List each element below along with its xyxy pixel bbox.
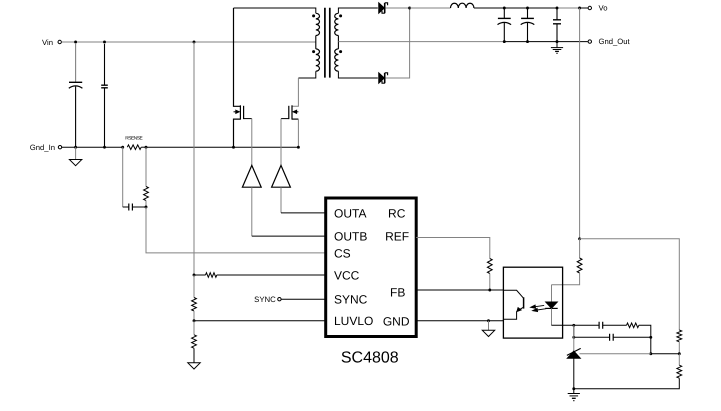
wire ground rail right xyxy=(146,146,298,148)
node comp branch junction xyxy=(572,336,575,339)
node comp net junction xyxy=(649,336,652,339)
terminal Vo xyxy=(588,4,607,13)
node Vin-VCC tap junction xyxy=(193,41,196,44)
wire opto light arrows xyxy=(530,304,546,312)
svg-text:Vo: Vo xyxy=(599,4,608,13)
ground UVLO (triangle) xyxy=(188,363,200,369)
node C5 top junction xyxy=(526,7,529,10)
svg-text:RSENSE: RSENSE xyxy=(125,136,143,142)
node RSENSE left junction xyxy=(121,146,124,149)
terminal Vin xyxy=(42,38,61,47)
wire CS filter right leg xyxy=(145,147,147,186)
node Vin-C2 junction xyxy=(103,41,106,44)
node Q1 source junction xyxy=(232,146,235,149)
node C4 bottom junction xyxy=(503,40,506,43)
wire inductor to output caps xyxy=(474,7,557,9)
resistor R4 (UVLO bottom) xyxy=(192,321,197,363)
svg-text:VCC: VCC xyxy=(334,268,360,282)
wire primary bottom lead xyxy=(298,71,315,78)
svg-text:FB: FB xyxy=(390,285,405,299)
svg-text:Gnd_Out: Gnd_Out xyxy=(599,37,631,46)
node FB junction xyxy=(488,289,491,292)
wire Q2 gate xyxy=(281,118,289,120)
transformer T1 core xyxy=(325,8,330,78)
svg-text:REF: REF xyxy=(385,229,409,243)
node TL431 anode junction xyxy=(572,387,575,390)
node Vo junction xyxy=(578,7,581,10)
wire SYNC to IC xyxy=(281,298,325,300)
svg-text:Vin: Vin xyxy=(42,38,53,47)
wire Vin to VCC divider xyxy=(193,42,195,275)
capacitor C5 (output electrolytic) xyxy=(521,8,535,42)
wire FB pin xyxy=(416,289,503,291)
node RSENSE right junction xyxy=(145,146,148,149)
transformer T1 secondary winding xyxy=(335,13,339,35)
svg-text:RC: RC xyxy=(388,207,406,221)
terminal SYNC xyxy=(254,295,281,304)
ground input (triangle) xyxy=(69,147,81,166)
wire CS to IC xyxy=(146,207,326,253)
node Vin-C1 junction xyxy=(74,41,77,44)
op-amp U2 optocoupler box xyxy=(503,267,562,338)
wire GND pin xyxy=(416,319,503,320)
capacitor C7 (comp series) xyxy=(599,322,626,329)
transistor Q3 (opto phototransistor) xyxy=(503,290,523,319)
wire secondary top lead xyxy=(338,8,377,13)
node VCC junction xyxy=(193,274,196,277)
node C1 ground junction xyxy=(74,146,77,149)
wire rectified to inductor xyxy=(410,7,451,9)
capacitor C8 (comp parallel) xyxy=(610,334,651,341)
terminal Gnd_In xyxy=(30,143,62,152)
node secondary phase dots xyxy=(339,14,342,17)
ground IC (triangle) xyxy=(482,321,494,337)
node Q2 source junction xyxy=(297,146,300,149)
resistor RSENSE xyxy=(127,145,146,150)
node comp to ref junction xyxy=(649,352,652,355)
transformer T1 primary winding xyxy=(316,13,320,35)
svg-text:GND: GND xyxy=(383,314,410,328)
wire Vin rail xyxy=(62,41,316,43)
ground TL431 (earth) xyxy=(568,389,580,401)
resistor R1 (CS filter) xyxy=(144,187,149,201)
resistor R8 (divider top) xyxy=(677,330,682,342)
node C2 ground junction xyxy=(103,146,106,149)
wire REF pin xyxy=(416,238,490,259)
svg-text:OUTB: OUTB xyxy=(334,229,367,243)
node C4 top junction xyxy=(503,7,506,10)
wire LED cathode out xyxy=(551,324,599,326)
transistor Q2 (right MOSFET) xyxy=(289,78,299,147)
wire TL431 reference xyxy=(580,353,651,355)
inductor L1 xyxy=(451,3,474,8)
wire bottom return xyxy=(574,378,680,389)
node CS filter junction xyxy=(145,206,148,209)
wire primary top lead xyxy=(234,8,316,13)
ground output (earth) xyxy=(551,42,563,54)
node LED cathode junction xyxy=(572,324,575,327)
node C5 bottom junction xyxy=(526,40,529,43)
wire TL431 anode xyxy=(573,358,575,388)
wire secondary centre tap to Gnd_Out xyxy=(338,41,504,43)
svg-text:SYNC: SYNC xyxy=(254,295,276,304)
svg-text:CS: CS xyxy=(334,246,351,260)
node primary phase dots xyxy=(312,14,315,17)
svg-text:SC4808: SC4808 xyxy=(341,349,399,366)
resistor R2 (VCC) xyxy=(194,273,326,278)
capacitor C4 (output electrolytic) xyxy=(498,8,512,42)
wire comp lower branch xyxy=(574,325,610,337)
wire D2 cathode to rectified node xyxy=(385,8,409,78)
terminal Gnd_Out xyxy=(588,37,630,46)
wire Vo sense to divider xyxy=(580,239,680,330)
buffer driver B (right triangle) xyxy=(272,165,291,187)
wire Vo sense xyxy=(579,8,581,239)
wire TL431 cathode xyxy=(573,325,575,351)
node LUVLO junction xyxy=(193,319,196,322)
node Vo sense junction xyxy=(578,237,581,240)
wire ground rail left xyxy=(62,146,123,148)
wire LUVLO to IC xyxy=(194,320,326,322)
capacitor C6 (output ceramic) xyxy=(553,8,561,42)
transistor U3 TL431 shunt regulator xyxy=(567,348,581,358)
resistor R3 (UVLO top) xyxy=(192,275,197,321)
svg-text:LUVLO: LUVLO xyxy=(334,314,373,328)
buffer driver A (left triangle) xyxy=(242,165,261,187)
wire secondary bottom lead xyxy=(338,71,377,78)
node C6 bottom junction xyxy=(556,40,559,43)
resistor R7 (comp series) xyxy=(627,323,639,328)
svg-text:Gnd_In: Gnd_In xyxy=(30,143,55,152)
node rectified junction xyxy=(408,7,411,10)
svg-text:SYNC: SYNC xyxy=(334,292,368,306)
node divider junction xyxy=(678,352,681,355)
wire OUTB to driver A xyxy=(251,187,253,236)
capacitor C1 (input electrolytic) xyxy=(69,44,83,147)
op-amp U1 SC4808 controller xyxy=(326,198,417,337)
resistor R5 (REF to FB) xyxy=(487,259,492,274)
wire CS filter left leg xyxy=(122,147,124,207)
diode D1 (top schottky) xyxy=(379,3,388,13)
resistor R9 (divider bottom) xyxy=(678,354,680,366)
diode D2 (bottom schottky) xyxy=(379,73,388,83)
svg-text:OUTA: OUTA xyxy=(334,206,366,220)
resistor R6 (LED bias) xyxy=(551,239,582,285)
node C6 top junction xyxy=(556,7,559,10)
node GND junction xyxy=(487,319,490,322)
diode D3 (opto LED) xyxy=(545,285,558,326)
wire D1 cathode xyxy=(385,7,409,9)
wire Q1 gate xyxy=(244,118,252,120)
capacitor C2 (input ceramic) xyxy=(101,44,108,147)
capacitor C3 (CS filter) xyxy=(129,204,146,211)
transistor Q1 (left MOSFET) xyxy=(234,8,244,147)
wire OUTA to driver B xyxy=(280,187,282,213)
